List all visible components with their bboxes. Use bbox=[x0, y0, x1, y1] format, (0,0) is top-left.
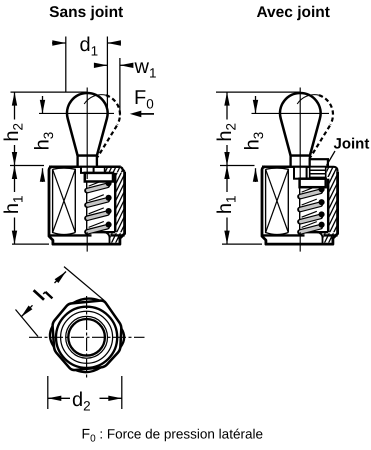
dimension w1 extension line bbox=[119, 58, 121, 116]
dimension d1 extension lines bbox=[65, 37, 67, 93]
tilted knob dashed arc bbox=[106, 95, 120, 124]
right dimension h2 bbox=[226, 92, 228, 119]
collar bbox=[291, 156, 310, 167]
tilted knob dashed taper bbox=[311, 126, 330, 157]
step shoulder bbox=[49, 234, 92, 236]
ball centerline horizontal bbox=[252, 112, 330, 114]
dimension h1 bbox=[14, 166, 16, 193]
collar bbox=[78, 156, 97, 167]
body top face bbox=[262, 166, 291, 169]
bore wall bbox=[114, 173, 116, 232]
dimension l1 extension lines bbox=[64, 267, 104, 301]
dimension h3 bbox=[42, 96, 44, 113]
stem bbox=[294, 167, 307, 179]
h2 top extension line bbox=[11, 91, 88, 93]
right dimension h1 bbox=[226, 166, 228, 193]
step shoulder bbox=[262, 234, 305, 236]
spring bbox=[302, 186, 317, 192]
tilted knob thin arc bbox=[84, 95, 106, 104]
bottom hole fillet bbox=[104, 232, 110, 243]
bottom view crosshair horizontal bbox=[29, 336, 145, 338]
piston bbox=[85, 173, 113, 182]
dimension h2 bbox=[14, 92, 16, 119]
right h2 top extension line bbox=[216, 91, 300, 93]
section edge line bbox=[86, 179, 88, 232]
body top face bbox=[49, 166, 78, 169]
seal (joint) raised block bbox=[310, 159, 328, 167]
bottom view crosshair vertical bbox=[86, 296, 88, 380]
bottom view side bump arcs (d2 circle) bbox=[73, 299, 99, 303]
piston bbox=[300, 179, 326, 188]
bore wall bbox=[327, 179, 329, 233]
dimension d2 extension lines bbox=[47, 376, 49, 409]
knob (pear) bbox=[67, 93, 108, 156]
bottom view pilot circle bbox=[56, 307, 117, 368]
tilted knob dashed taper bbox=[98, 126, 117, 157]
seal section hatched bbox=[310, 167, 326, 178]
dimension l1 bbox=[21, 305, 33, 317]
section edge line bbox=[299, 185, 301, 232]
knurl box with X bbox=[53, 168, 76, 235]
seal rim bbox=[328, 167, 338, 172]
right h2/h1 middle extension line bbox=[220, 165, 255, 167]
knurl box with X bbox=[266, 168, 289, 235]
body top-right step bbox=[121, 167, 125, 172]
stem bbox=[81, 167, 94, 173]
tilted knob thin arc bbox=[297, 95, 319, 104]
right h1 bottom extension line bbox=[222, 243, 262, 245]
cavity floor bbox=[299, 231, 328, 233]
dimension d2 bbox=[48, 397, 70, 399]
knob (pear) bbox=[280, 93, 321, 156]
right dimension h3 bbox=[255, 96, 257, 113]
h1 bottom extension line bbox=[12, 243, 49, 245]
bottom view square body outline bbox=[53, 301, 122, 370]
dimension d1 bbox=[52, 42, 66, 44]
l1 label (drawn) bbox=[34, 290, 44, 300]
spring bbox=[89, 180, 104, 186]
tilted knob dashed arc bbox=[319, 95, 333, 124]
Joint leader line bbox=[327, 151, 336, 166]
dimension w1 bbox=[96, 64, 108, 66]
bottom view bore circle bbox=[68, 319, 105, 356]
svg-text:Joint: Joint bbox=[334, 135, 370, 152]
body outline bbox=[49, 167, 125, 244]
centerline vertical bbox=[86, 88, 88, 180]
bottom view hole chamfer circle bbox=[66, 316, 108, 358]
force F0 arrow bbox=[139, 113, 155, 115]
svg-text:Sans joint: Sans joint bbox=[49, 4, 123, 21]
body outline bbox=[262, 167, 338, 244]
lip inner edge bbox=[104, 167, 106, 173]
bottom hole fillet bbox=[317, 232, 323, 243]
bottom view chamfer circle bbox=[61, 311, 113, 363]
centerline vertical bbox=[299, 88, 301, 180]
h2/h1 middle extension line bbox=[10, 165, 44, 167]
svg-text:Avec joint: Avec joint bbox=[256, 4, 330, 21]
cavity floor bbox=[86, 231, 115, 233]
ball centerline horizontal bbox=[39, 112, 114, 114]
